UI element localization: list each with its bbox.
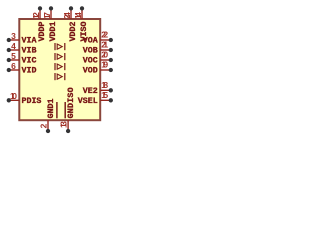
- dot VDD2: [69, 6, 73, 10]
- svg-text:VOD: VOD: [83, 67, 98, 76]
- pin VOD (right): [100, 69, 111, 71]
- dot VIC: [7, 58, 11, 62]
- svg-text:VIB: VIB: [22, 47, 37, 56]
- pin VOC (right): [100, 59, 111, 61]
- svg-text:VDDP: VDDP: [38, 21, 47, 41]
- IC body: [19, 19, 100, 120]
- svg-text:19: 19: [101, 60, 108, 70]
- pin VIB (left): [9, 49, 19, 51]
- svg-text:2: 2: [39, 123, 49, 128]
- svg-text:17: 17: [42, 12, 52, 19]
- dot VSEL: [109, 98, 113, 102]
- pin VSEL (right): [100, 99, 111, 101]
- svg-text:14: 14: [73, 12, 83, 19]
- svg-text:6: 6: [11, 61, 16, 71]
- isolation barrier bar 1 (bottom): [56, 102, 58, 118]
- svg-text:GNDISO: GNDISO: [67, 87, 76, 118]
- svg-text:15: 15: [101, 90, 108, 100]
- dot VIB: [7, 48, 11, 52]
- svg-text:18: 18: [101, 80, 108, 90]
- dot VOA: [109, 38, 113, 42]
- channel A buffer: [55, 43, 65, 50]
- dot VOD: [109, 68, 113, 72]
- svg-text:VOC: VOC: [83, 57, 98, 66]
- channel D buffer: [55, 73, 65, 80]
- pin VISO (top): [81, 8, 83, 19]
- pin GND1 (bottom): [47, 120, 49, 131]
- pin VDD2 (top): [70, 8, 72, 19]
- svg-text:20: 20: [101, 50, 108, 60]
- svg-text:PDIS: PDIS: [22, 97, 42, 106]
- svg-text:VOB: VOB: [83, 47, 98, 56]
- pin numbers: [10, 12, 108, 128]
- pin VOB (right): [100, 49, 111, 51]
- isolation barrier bar 2 (bottom): [64, 102, 66, 118]
- dot VE2: [109, 88, 113, 92]
- pin names: [22, 21, 98, 118]
- svg-text:VID: VID: [22, 67, 37, 76]
- svg-text:VDD2: VDD2: [69, 21, 78, 41]
- svg-text:VIA: VIA: [22, 37, 37, 46]
- dot VID: [7, 68, 11, 72]
- pin VOA (right): [100, 39, 111, 41]
- svg-text:10: 10: [10, 91, 17, 101]
- svg-text:VE2: VE2: [83, 87, 98, 96]
- svg-text:22: 22: [101, 30, 108, 40]
- pin VDDP (top): [39, 8, 41, 19]
- svg-text:21: 21: [101, 40, 108, 50]
- dot VISO: [80, 6, 84, 10]
- svg-text:VSEL: VSEL: [78, 97, 98, 106]
- dot GNDISO: [66, 129, 70, 133]
- pin GNDISO (bottom): [67, 120, 69, 131]
- svg-text:GND1: GND1: [47, 98, 56, 118]
- pin end dots: [7, 6, 113, 133]
- channel C buffer: [55, 63, 65, 70]
- channel B buffer: [55, 53, 65, 60]
- svg-text:VIC: VIC: [22, 57, 37, 66]
- pin VIC (left): [9, 59, 19, 61]
- svg-text:3: 3: [11, 31, 16, 41]
- svg-text:5: 5: [11, 51, 16, 61]
- dot VDDP: [38, 6, 42, 10]
- pin PDIS (left): [9, 99, 19, 101]
- pin VE2 (right): [100, 89, 111, 91]
- dot VDD1: [49, 6, 53, 10]
- svg-text:VDD1: VDD1: [49, 21, 58, 41]
- svg-text:13: 13: [59, 121, 69, 128]
- svg-text:24: 24: [62, 12, 72, 19]
- pin VIA (left): [9, 39, 19, 41]
- pin VID (left): [9, 69, 19, 71]
- dot PDIS: [7, 98, 11, 102]
- dot VOC: [109, 58, 113, 62]
- dot VIA: [7, 38, 11, 42]
- svg-text:VOA: VOA: [83, 37, 98, 46]
- svg-text:12: 12: [31, 12, 41, 19]
- dot GND1: [46, 129, 50, 133]
- svg-text:4: 4: [11, 41, 16, 51]
- pin VDD1 (top): [50, 8, 52, 19]
- dot VOB: [109, 48, 113, 52]
